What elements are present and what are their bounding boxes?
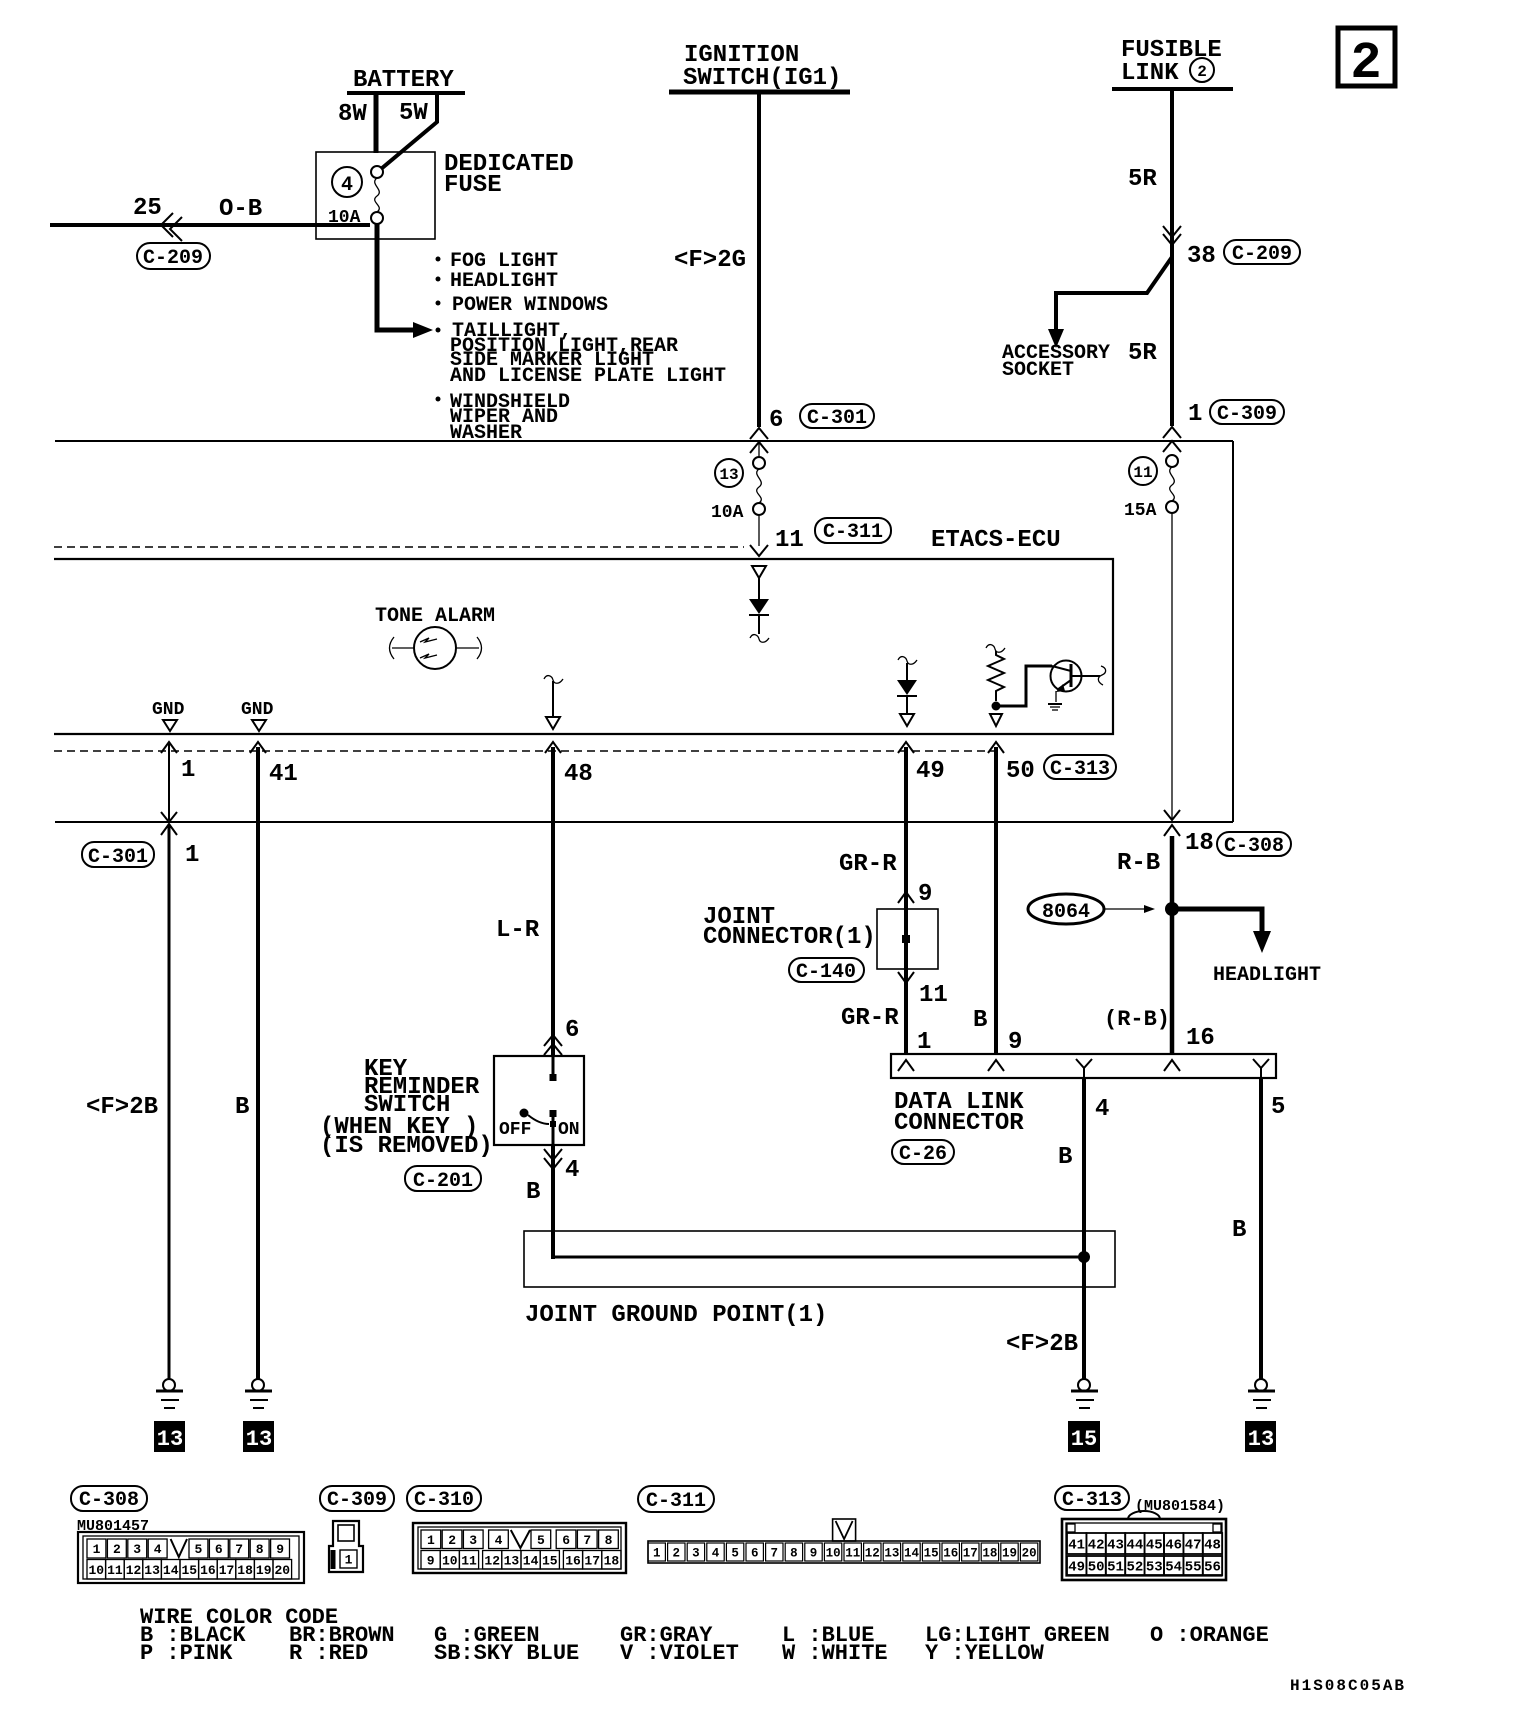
terminal 11 C-311	[775, 518, 891, 554]
svg-text:ETACS-ECU: ETACS-ECU	[931, 527, 1061, 554]
svg-text:15: 15	[181, 1563, 197, 1578]
svg-text:9: 9	[810, 1547, 818, 1561]
svg-text:47: 47	[1185, 1538, 1202, 1554]
svg-text:17: 17	[963, 1547, 978, 1561]
svg-text:48: 48	[564, 761, 593, 788]
svg-text:C-311: C-311	[823, 521, 883, 544]
svg-text:1: 1	[345, 1553, 353, 1568]
diode D1 (ignition input)	[749, 566, 769, 642]
svg-text:CONNECTOR(1): CONNECTOR(1)	[703, 924, 876, 951]
svg-text:C-313: C-313	[1050, 758, 1110, 781]
ETACS-ECU label	[931, 527, 1061, 554]
wire 41 B to ground	[235, 822, 258, 1379]
svg-text:7: 7	[771, 1547, 779, 1561]
ground page ref 13 (left)	[154, 1421, 185, 1452]
wire fuse13 to C-311 pin 11	[750, 515, 768, 556]
terminal 38 C-209	[1187, 240, 1300, 270]
svg-text:12: 12	[865, 1547, 880, 1561]
svg-text:SB:SKY BLUE: SB:SKY BLUE	[434, 1641, 579, 1666]
wire (F)2G from ignition	[674, 94, 759, 427]
svg-text:17: 17	[219, 1563, 235, 1578]
fuse element F4 10A	[328, 166, 383, 228]
diode D2 (pin 49)	[897, 657, 917, 726]
svg-text:55: 55	[1185, 1560, 1202, 1576]
wire 5W	[381, 95, 437, 169]
svg-text:3: 3	[133, 1542, 141, 1557]
svg-text:9: 9	[276, 1542, 284, 1557]
svg-text:13: 13	[157, 1427, 183, 1452]
svg-text:L-R: L-R	[496, 917, 540, 944]
ignition switch bar	[669, 90, 850, 95]
svg-text:1: 1	[427, 1533, 435, 1548]
svg-text:1: 1	[181, 757, 195, 784]
svg-text:41: 41	[269, 761, 298, 788]
transistor Q1	[1000, 661, 1106, 711]
svg-text:12: 12	[484, 1553, 500, 1568]
connector pinout C-311	[638, 1486, 1040, 1563]
svg-text:5: 5	[731, 1547, 739, 1561]
svg-text:C-309: C-309	[1217, 403, 1277, 426]
joint ground point caption	[525, 1302, 827, 1329]
svg-text:B: B	[973, 1007, 987, 1034]
svg-text:3: 3	[469, 1533, 477, 1548]
svg-text:48: 48	[1204, 1538, 1221, 1554]
ground page ref 13 (right)	[1245, 1421, 1276, 1452]
data link connector band	[891, 1054, 1276, 1078]
svg-text:10A: 10A	[328, 208, 361, 228]
joint connector caption	[703, 904, 876, 951]
wire GR-R pin49 lower	[841, 969, 931, 1056]
svg-text:GR-R: GR-R	[839, 851, 897, 878]
svg-text:15: 15	[1071, 1427, 1097, 1452]
svg-text:11: 11	[919, 982, 948, 1009]
terminal chevron pin41	[250, 742, 266, 753]
svg-text:15: 15	[542, 1553, 558, 1568]
svg-text:54: 54	[1165, 1560, 1182, 1576]
svg-text:9: 9	[1008, 1029, 1022, 1056]
svg-text:44: 44	[1126, 1538, 1143, 1554]
svg-text:TONE ALARM: TONE ALARM	[375, 605, 495, 628]
terminal chevron pin1	[161, 742, 177, 753]
svg-text:13: 13	[884, 1547, 899, 1561]
data link terminal chevrons	[898, 1059, 1269, 1078]
svg-text:B: B	[526, 1179, 540, 1206]
key reminder switch caption	[320, 1056, 493, 1160]
svg-text:1: 1	[917, 1029, 931, 1056]
dedicated fuse box	[316, 152, 435, 239]
svg-text:8: 8	[256, 1542, 264, 1557]
wire 5R upper	[1128, 91, 1172, 426]
joint connector (1) box	[877, 909, 938, 969]
wire from C-301 pin6 to fuse 13	[758, 441, 760, 457]
svg-text:8: 8	[605, 1533, 613, 1548]
svg-text:53: 53	[1146, 1560, 1163, 1576]
wire (F)2B to ground	[86, 824, 169, 1379]
svg-text:C-311: C-311	[646, 1490, 706, 1513]
crossing chevrons pin1 at C-301	[161, 812, 177, 835]
svg-text:(IS REMOVED): (IS REMOVED)	[320, 1133, 493, 1160]
svg-text:SWITCH(IG1): SWITCH(IG1)	[683, 65, 841, 92]
joint ground bus wire	[553, 1251, 1090, 1263]
accessory socket caption	[1002, 342, 1110, 382]
wire B from key switch to ground bus	[526, 1145, 553, 1259]
junction block band bottom line	[55, 821, 1233, 823]
svg-text:2: 2	[1350, 34, 1381, 93]
svg-text:CONNECTOR: CONNECTOR	[894, 1110, 1024, 1137]
svg-text:4: 4	[712, 1547, 720, 1561]
terminal chevron pin49	[898, 742, 914, 753]
svg-text:FUSE: FUSE	[444, 172, 502, 199]
svg-text:16: 16	[565, 1553, 581, 1568]
svg-text:14: 14	[163, 1563, 179, 1578]
ground (pin1 wire)	[156, 1379, 183, 1408]
data link caption	[894, 1089, 1024, 1137]
svg-text:8: 8	[790, 1547, 798, 1561]
svg-text:(MU801584): (MU801584)	[1135, 1498, 1225, 1515]
svg-text:49: 49	[1068, 1560, 1085, 1576]
drawing number	[1290, 1677, 1406, 1695]
wire (F)2B label (right)	[1006, 1331, 1078, 1358]
wire (R-B) label and pin16	[1104, 1007, 1215, 1052]
svg-text:SOCKET: SOCKET	[1002, 359, 1074, 382]
svg-text:13: 13	[144, 1563, 160, 1578]
svg-text:18: 18	[237, 1563, 253, 1578]
svg-text:42: 42	[1088, 1538, 1105, 1554]
splice ref 8064	[1028, 894, 1155, 924]
svg-text:W :WHITE: W :WHITE	[782, 1641, 888, 1666]
terminal 1 C-309	[1188, 400, 1284, 428]
joint ground point box	[524, 1231, 1115, 1287]
svg-text:B: B	[235, 1094, 249, 1121]
svg-text:15: 15	[924, 1547, 939, 1561]
connector pinout C-308	[71, 1486, 304, 1583]
terminal chevron joint connector top	[898, 892, 914, 903]
svg-text:O :ORANGE: O :ORANGE	[1150, 1623, 1269, 1648]
crossing chevrons at 18 C-308	[1164, 810, 1180, 836]
dashed connector line C-311	[54, 546, 744, 548]
wire 8W	[338, 95, 376, 153]
svg-text:C-310: C-310	[414, 1489, 474, 1512]
svg-text:4: 4	[565, 1157, 579, 1184]
GND label 2	[241, 700, 274, 731]
connector pinout C-309	[320, 1486, 394, 1572]
svg-text:(R-B): (R-B)	[1104, 1007, 1170, 1032]
svg-text:2: 2	[1197, 63, 1207, 81]
ground (data link pin5)	[1248, 1379, 1275, 1408]
wire 48 in band	[553, 747, 593, 822]
svg-text:C-301: C-301	[88, 846, 148, 869]
svg-text:15A: 15A	[1124, 501, 1157, 521]
fuse number circle 13	[715, 459, 743, 487]
svg-text:16: 16	[943, 1547, 958, 1561]
fuse element F11 15A	[1124, 455, 1178, 521]
svg-text:41: 41	[1068, 1538, 1085, 1554]
svg-text:HEADLIGHT: HEADLIGHT	[450, 270, 558, 293]
svg-text:OFF: OFF	[499, 1120, 531, 1140]
svg-text:18: 18	[982, 1547, 997, 1561]
svg-text:GND: GND	[241, 700, 274, 720]
svg-text:1: 1	[185, 842, 199, 869]
connector label C-26	[892, 1140, 954, 1166]
svg-text:50: 50	[1088, 1560, 1105, 1576]
connector label C-209 (left)	[137, 243, 210, 270]
svg-text:BATTERY: BATTERY	[353, 67, 454, 94]
junction block band right edge	[1232, 441, 1234, 822]
GND label 1	[152, 700, 185, 731]
svg-text:LINK: LINK	[1121, 60, 1179, 87]
svg-text:20: 20	[274, 1563, 290, 1578]
branch to headlight	[1174, 909, 1321, 987]
wire L-R from pin48	[496, 822, 553, 1056]
svg-text:12: 12	[126, 1563, 142, 1578]
svg-text:52: 52	[1126, 1560, 1143, 1576]
svg-text:19: 19	[256, 1563, 272, 1578]
ignition switch label	[683, 42, 841, 92]
svg-text:HEADLIGHT: HEADLIGHT	[1213, 964, 1321, 987]
svg-text:4: 4	[154, 1542, 162, 1557]
wire pin1 in band	[169, 744, 195, 820]
svg-text:16: 16	[200, 1563, 216, 1578]
svg-text:R :RED: R :RED	[289, 1641, 368, 1666]
svg-text:AND LICENSE PLATE LIGHT: AND LICENSE PLATE LIGHT	[450, 365, 726, 388]
svg-text:50: 50	[1006, 758, 1035, 785]
dashed connector line C-313	[54, 750, 996, 752]
svg-text:11: 11	[845, 1547, 860, 1561]
svg-text:43: 43	[1107, 1538, 1124, 1554]
svg-text:20: 20	[1022, 1547, 1037, 1561]
svg-text:1: 1	[653, 1547, 661, 1561]
connector label C-201	[405, 1166, 481, 1193]
wire fuse11 down through band	[1171, 513, 1173, 820]
svg-text:13: 13	[246, 1427, 272, 1452]
junction block band top line	[55, 440, 1233, 442]
wire R-B from pin18	[1117, 836, 1172, 1054]
svg-text:6: 6	[565, 1017, 579, 1044]
fusible link fuse 11 circle	[1129, 457, 1157, 485]
svg-text:19: 19	[1002, 1547, 1017, 1561]
svg-text:C-313: C-313	[1062, 1489, 1122, 1512]
chevrons at band entry x1172	[1163, 427, 1181, 452]
svg-text:6: 6	[751, 1547, 759, 1561]
svg-text:11: 11	[1133, 464, 1152, 482]
fuse element F13 10A	[711, 457, 765, 523]
svg-text:1: 1	[1188, 401, 1202, 428]
wire GR-R pin49 upper	[839, 822, 932, 909]
wire 50 in band	[996, 747, 1035, 822]
svg-text:C-209: C-209	[1232, 243, 1292, 266]
svg-text:2: 2	[113, 1542, 121, 1557]
svg-text:8064: 8064	[1042, 901, 1090, 924]
svg-text:7: 7	[583, 1533, 591, 1548]
svg-text:6: 6	[562, 1533, 570, 1548]
svg-text:POWER WINDOWS: POWER WINDOWS	[452, 294, 608, 317]
svg-text:5R: 5R	[1128, 166, 1157, 193]
svg-text:JOINT GROUND POINT(1): JOINT GROUND POINT(1)	[525, 1302, 827, 1329]
data link pin 5 wire B	[1232, 1078, 1285, 1379]
svg-text:11: 11	[107, 1563, 123, 1578]
svg-text:C-140: C-140	[796, 961, 856, 984]
svg-text:O-B: O-B	[219, 196, 262, 223]
svg-text:51: 51	[1107, 1560, 1124, 1576]
svg-text:Y :YELLOW: Y :YELLOW	[925, 1641, 1045, 1666]
double chevron down on 5R	[1163, 226, 1181, 245]
terminal chevron pin48	[545, 742, 561, 753]
svg-text:14: 14	[904, 1547, 920, 1561]
double chevron down at key switch pin4	[544, 1149, 579, 1184]
svg-text:8W: 8W	[338, 101, 367, 128]
connector label C-301 (top)	[800, 404, 874, 430]
svg-text:3: 3	[692, 1547, 700, 1561]
svg-text:GR-R: GR-R	[841, 1005, 899, 1032]
branch to accessory socket	[1048, 257, 1172, 348]
svg-text:10: 10	[442, 1553, 458, 1568]
svg-text:5: 5	[194, 1542, 202, 1557]
terminal chevron pin50	[988, 742, 1004, 753]
svg-text:P :PINK: P :PINK	[140, 1641, 233, 1666]
svg-text:H1S08C05AB: H1S08C05AB	[1290, 1677, 1406, 1695]
svg-text:V :VIOLET: V :VIOLET	[620, 1641, 739, 1666]
resistor R1 (pin 50)	[986, 645, 1005, 726]
svg-text:<F>2B: <F>2B	[86, 1094, 158, 1121]
svg-text:ON: ON	[558, 1120, 580, 1140]
svg-text:56: 56	[1204, 1560, 1221, 1576]
connector label C-301 (lower)	[82, 842, 199, 869]
load list bullets	[436, 257, 441, 402]
battery label	[353, 67, 454, 94]
circled 2	[1190, 58, 1214, 82]
svg-text:38: 38	[1187, 243, 1216, 270]
key reminder switch box	[494, 1056, 584, 1145]
wire from fuse to load list arrow	[377, 224, 433, 338]
svg-text:18: 18	[604, 1553, 620, 1568]
svg-text:17: 17	[584, 1553, 600, 1568]
svg-text:10A: 10A	[711, 503, 744, 523]
svg-text:11: 11	[775, 527, 804, 554]
tone alarm symbol	[390, 627, 482, 669]
svg-text:6: 6	[769, 407, 783, 434]
svg-text:9: 9	[427, 1553, 435, 1568]
ground (pin41 wire)	[245, 1379, 272, 1408]
svg-text:14: 14	[523, 1553, 539, 1568]
svg-text:1: 1	[93, 1542, 101, 1557]
svg-text:45: 45	[1146, 1538, 1163, 1554]
svg-text:46: 46	[1165, 1538, 1182, 1554]
chevrons at band entry x759	[750, 428, 768, 453]
wire 41 in band	[258, 747, 298, 822]
svg-text:4: 4	[1095, 1096, 1109, 1123]
connector pinout C-310	[407, 1486, 626, 1573]
svg-text:11: 11	[461, 1553, 477, 1568]
wire 5R lower label	[1128, 340, 1157, 367]
svg-text:B: B	[1058, 1144, 1072, 1171]
svg-text:49: 49	[916, 758, 945, 785]
svg-text:13: 13	[1248, 1427, 1274, 1452]
svg-text:9: 9	[918, 881, 932, 908]
svg-text:5: 5	[1271, 1094, 1285, 1121]
svg-text:5: 5	[537, 1533, 545, 1548]
wire 49 in band	[906, 747, 945, 822]
dedicated fuse caption	[444, 151, 574, 199]
connector label C-140	[789, 958, 864, 984]
load list text	[450, 250, 726, 445]
svg-text:R-B: R-B	[1117, 850, 1160, 877]
terminal 6 C-301	[769, 407, 783, 434]
svg-text:7: 7	[235, 1542, 243, 1557]
svg-text:6: 6	[215, 1542, 223, 1557]
fusible link label	[1121, 37, 1222, 87]
wire 25 O-B to C-209	[50, 195, 370, 225]
svg-text:2: 2	[448, 1533, 456, 1548]
svg-text:C-308: C-308	[1224, 835, 1284, 858]
svg-text:18: 18	[1185, 830, 1214, 857]
svg-text:16: 16	[1186, 1025, 1215, 1052]
svg-text:4: 4	[495, 1533, 503, 1548]
wire color code legend	[140, 1605, 1269, 1666]
connector label C-313	[1044, 755, 1116, 781]
svg-text:10: 10	[88, 1563, 104, 1578]
splice junction node	[1165, 902, 1179, 916]
svg-text:5R: 5R	[1128, 340, 1157, 367]
svg-text:C-309: C-309	[327, 1489, 387, 1512]
svg-text:13: 13	[719, 466, 738, 484]
svg-text:10: 10	[826, 1547, 841, 1561]
data link pin 4 wire B	[1058, 1078, 1109, 1379]
svg-text:13: 13	[504, 1553, 520, 1568]
ETACS-ECU box	[54, 559, 1113, 734]
svg-text:C-301: C-301	[807, 407, 867, 430]
battery bus bar	[347, 91, 465, 95]
wire B pin50 to data link	[973, 822, 1022, 1056]
fusible link bar	[1112, 87, 1233, 91]
double chevron up at key switch pin6	[544, 1017, 579, 1055]
ground (data link pin4)	[1071, 1379, 1098, 1408]
svg-text:2: 2	[673, 1547, 681, 1561]
svg-text:GND: GND	[152, 700, 185, 720]
ground page ref 13 (second)	[243, 1421, 274, 1452]
svg-text:B: B	[1232, 1217, 1246, 1244]
svg-text:<F>2B: <F>2B	[1006, 1331, 1078, 1358]
double chevron left	[161, 213, 182, 241]
ground page ref 15	[1068, 1421, 1100, 1452]
connector pinout C-313	[1055, 1486, 1226, 1580]
page number box 2	[1338, 28, 1395, 93]
svg-text:C-308: C-308	[79, 1489, 139, 1512]
ETACS pin 48 stub	[544, 676, 563, 729]
terminal 18 C-308	[1185, 830, 1291, 858]
chevron below joint connector	[898, 972, 948, 1009]
svg-text:C-26: C-26	[899, 1143, 947, 1166]
fuse number circle 4	[332, 167, 362, 197]
svg-text:C-209: C-209	[143, 247, 203, 270]
tone alarm caption	[375, 605, 495, 628]
svg-text:<F>2G: <F>2G	[674, 247, 746, 274]
svg-text:4: 4	[341, 174, 353, 197]
svg-text:25: 25	[133, 195, 162, 222]
key reminder switch contacts	[499, 1056, 580, 1145]
svg-text:5W: 5W	[399, 100, 428, 127]
svg-text:C-201: C-201	[413, 1170, 473, 1193]
